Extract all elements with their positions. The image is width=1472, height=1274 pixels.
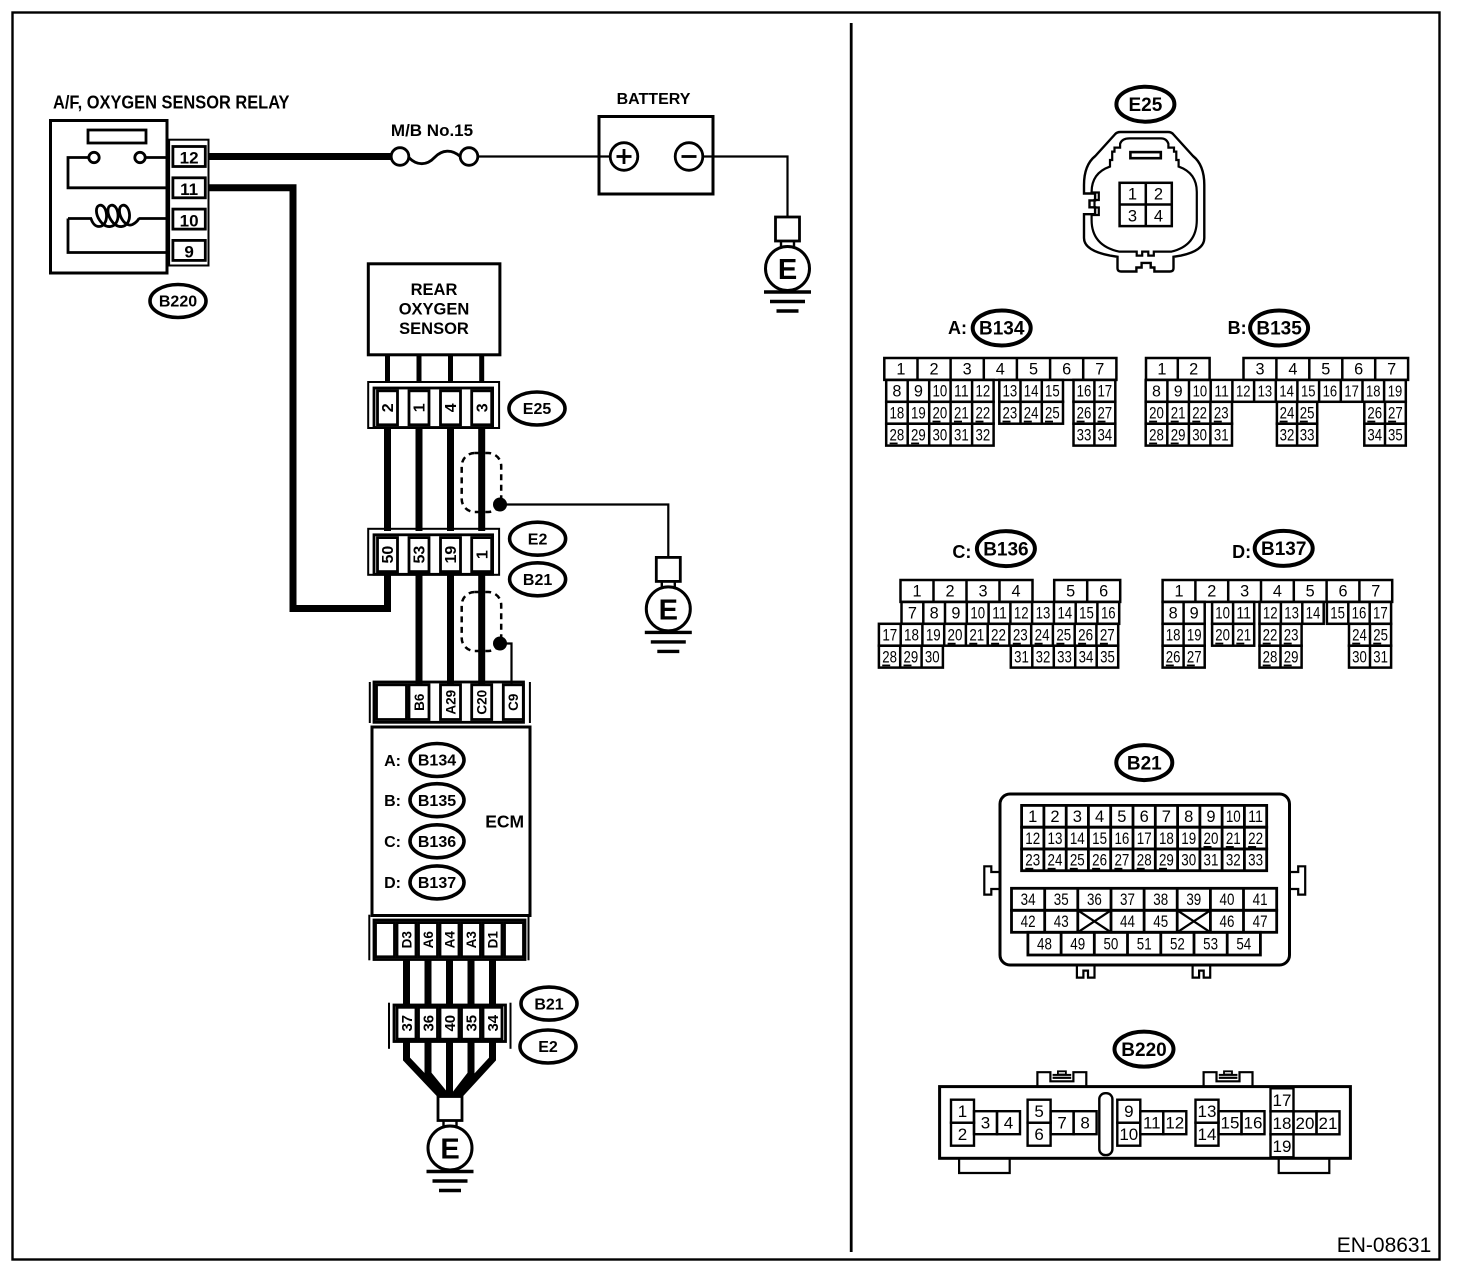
- svg-text:4: 4: [1288, 361, 1297, 379]
- svg-text:29: 29: [1159, 852, 1174, 870]
- svg-text:47: 47: [1253, 913, 1268, 931]
- svg-text:21: 21: [969, 627, 984, 645]
- svg-text:4: 4: [1004, 1114, 1013, 1133]
- svg-text:2: 2: [958, 1125, 967, 1144]
- svg-text:C9: C9: [506, 694, 521, 711]
- svg-text:20: 20: [933, 405, 948, 423]
- svg-text:10: 10: [933, 383, 948, 401]
- svg-text:6: 6: [1354, 361, 1363, 379]
- svg-text:16: 16: [1114, 830, 1129, 848]
- svg-text:1: 1: [1028, 808, 1037, 826]
- svg-text:27: 27: [1114, 852, 1129, 870]
- svg-text:27: 27: [1100, 627, 1115, 645]
- svg-text:25: 25: [1373, 627, 1388, 645]
- svg-text:37: 37: [1120, 891, 1135, 909]
- svg-text:17: 17: [882, 627, 897, 645]
- svg-text:22: 22: [1192, 405, 1207, 423]
- svg-text:19: 19: [1181, 830, 1196, 848]
- svg-text:16: 16: [1323, 384, 1338, 401]
- svg-text:26: 26: [1077, 405, 1092, 423]
- svg-text:31: 31: [1214, 426, 1229, 444]
- svg-text:23: 23: [1025, 852, 1040, 870]
- svg-text:BATTERY: BATTERY: [617, 91, 691, 108]
- svg-text:2: 2: [929, 361, 938, 379]
- svg-text:32: 32: [976, 426, 991, 444]
- svg-text:8: 8: [1184, 808, 1193, 826]
- svg-text:7: 7: [908, 605, 917, 623]
- svg-text:23: 23: [1003, 405, 1018, 423]
- svg-text:30: 30: [1181, 852, 1196, 870]
- svg-text:13: 13: [1198, 1102, 1217, 1121]
- svg-text:5: 5: [1066, 583, 1075, 601]
- svg-text:20: 20: [948, 627, 963, 645]
- svg-text:M/B No.15: M/B No.15: [391, 121, 473, 140]
- svg-text:12: 12: [1236, 384, 1251, 401]
- svg-text:13: 13: [1284, 605, 1299, 623]
- svg-text:4: 4: [443, 403, 460, 412]
- svg-text:12: 12: [976, 383, 991, 401]
- svg-text:17: 17: [1097, 383, 1112, 401]
- svg-text:19: 19: [1187, 627, 1202, 645]
- svg-text:11: 11: [1248, 808, 1263, 826]
- svg-text:18: 18: [1159, 830, 1174, 848]
- svg-text:5: 5: [1117, 808, 1126, 826]
- svg-text:15: 15: [1079, 605, 1094, 623]
- svg-text:24: 24: [1048, 852, 1063, 870]
- svg-text:12: 12: [1014, 605, 1029, 623]
- svg-text:18: 18: [1273, 1114, 1292, 1133]
- svg-text:23: 23: [1013, 627, 1028, 645]
- svg-text:6: 6: [1338, 583, 1347, 601]
- svg-text:7: 7: [1387, 361, 1396, 379]
- svg-text:10: 10: [970, 605, 985, 623]
- svg-text:23: 23: [1214, 405, 1229, 423]
- svg-text:30: 30: [925, 648, 940, 666]
- svg-text:29: 29: [1171, 426, 1186, 444]
- svg-text:24: 24: [1035, 627, 1050, 645]
- svg-text:9: 9: [1174, 384, 1183, 401]
- svg-text:19: 19: [911, 405, 926, 423]
- svg-text:53: 53: [412, 546, 429, 564]
- svg-text:B135: B135: [1256, 319, 1302, 340]
- svg-text:11: 11: [1236, 605, 1251, 623]
- svg-text:B135: B135: [418, 793, 456, 810]
- svg-text:19: 19: [926, 627, 941, 645]
- svg-text:31: 31: [1014, 648, 1029, 666]
- svg-text:8: 8: [930, 605, 939, 623]
- svg-text:16: 16: [1101, 605, 1116, 623]
- svg-text:1: 1: [474, 550, 491, 559]
- svg-text:EN-08631: EN-08631: [1337, 1234, 1432, 1257]
- svg-text:4: 4: [1095, 808, 1104, 826]
- svg-text:D:: D:: [384, 875, 401, 892]
- svg-text:17: 17: [1373, 605, 1388, 623]
- svg-text:32: 32: [1280, 426, 1295, 444]
- svg-text:D3: D3: [399, 931, 414, 949]
- svg-text:B137: B137: [1261, 539, 1306, 560]
- svg-text:5: 5: [1029, 361, 1038, 379]
- svg-text:46: 46: [1220, 913, 1235, 931]
- svg-text:B134: B134: [979, 319, 1025, 340]
- svg-text:24: 24: [1024, 405, 1039, 423]
- svg-text:B21: B21: [523, 572, 552, 589]
- svg-text:3: 3: [963, 361, 972, 379]
- svg-text:51: 51: [1137, 936, 1152, 954]
- svg-text:52: 52: [1170, 936, 1185, 954]
- svg-text:29: 29: [911, 426, 926, 444]
- svg-text:26: 26: [1092, 852, 1107, 870]
- svg-text:ECM: ECM: [485, 811, 524, 831]
- svg-text:54: 54: [1236, 936, 1251, 954]
- svg-text:7: 7: [1095, 361, 1104, 379]
- svg-text:4: 4: [1154, 207, 1163, 225]
- svg-text:B137: B137: [418, 875, 456, 892]
- svg-text:1: 1: [412, 403, 429, 412]
- svg-text:13: 13: [1003, 383, 1018, 401]
- svg-text:14: 14: [1306, 605, 1321, 623]
- svg-text:21: 21: [1171, 405, 1186, 423]
- svg-text:9: 9: [914, 383, 923, 401]
- svg-text:2: 2: [1050, 808, 1059, 826]
- svg-text:12: 12: [1025, 830, 1040, 848]
- svg-text:15: 15: [1221, 1114, 1240, 1133]
- svg-text:16: 16: [1077, 383, 1092, 401]
- svg-text:29: 29: [904, 648, 919, 666]
- svg-text:C20: C20: [475, 690, 490, 715]
- svg-text:13: 13: [1036, 605, 1051, 623]
- svg-text:E: E: [440, 1134, 459, 1166]
- svg-text:38: 38: [1153, 891, 1168, 909]
- svg-text:18: 18: [890, 405, 905, 423]
- svg-text:B220: B220: [159, 294, 197, 311]
- svg-text:23: 23: [1284, 627, 1299, 645]
- svg-text:39: 39: [1186, 891, 1201, 909]
- svg-text:26: 26: [1166, 648, 1181, 666]
- svg-text:41: 41: [1253, 891, 1268, 909]
- svg-text:B134: B134: [418, 753, 456, 770]
- svg-text:D1: D1: [485, 931, 500, 949]
- svg-text:21: 21: [1236, 627, 1251, 645]
- svg-text:A6: A6: [421, 931, 436, 949]
- svg-text:2: 2: [1207, 583, 1216, 601]
- svg-text:15: 15: [1045, 383, 1060, 401]
- svg-text:OXYGEN: OXYGEN: [399, 301, 470, 319]
- svg-text:1: 1: [1157, 361, 1166, 379]
- svg-text:15: 15: [1330, 605, 1345, 623]
- svg-text:14: 14: [1070, 830, 1085, 848]
- svg-text:48: 48: [1037, 936, 1052, 954]
- svg-text:E2: E2: [538, 1039, 558, 1056]
- svg-text:10: 10: [1215, 605, 1230, 623]
- svg-text:B:: B:: [384, 793, 401, 810]
- svg-text:24: 24: [1280, 405, 1295, 423]
- svg-text:43: 43: [1054, 913, 1069, 931]
- svg-text:27: 27: [1187, 648, 1202, 666]
- svg-text:50: 50: [1103, 936, 1118, 954]
- svg-text:31: 31: [1373, 648, 1388, 666]
- svg-text:2: 2: [1154, 186, 1163, 204]
- svg-text:3: 3: [1255, 361, 1264, 379]
- svg-text:22: 22: [991, 627, 1006, 645]
- svg-text:20: 20: [1215, 627, 1230, 645]
- svg-text:34: 34: [1079, 648, 1094, 666]
- svg-text:SENSOR: SENSOR: [399, 320, 469, 338]
- svg-text:35: 35: [1054, 891, 1069, 909]
- svg-text:3: 3: [981, 1114, 990, 1133]
- svg-text:B136: B136: [418, 834, 456, 851]
- svg-text:25: 25: [1045, 405, 1060, 423]
- svg-text:20: 20: [1296, 1114, 1315, 1133]
- svg-text:40: 40: [442, 1015, 459, 1032]
- svg-text:28: 28: [1149, 426, 1164, 444]
- svg-text:32: 32: [1036, 648, 1051, 666]
- svg-text:18: 18: [904, 627, 919, 645]
- svg-text:C:: C:: [952, 542, 971, 562]
- svg-text:19: 19: [1273, 1137, 1292, 1156]
- svg-text:27: 27: [1097, 405, 1112, 423]
- svg-text:B21: B21: [534, 996, 563, 1013]
- svg-text:19: 19: [1388, 384, 1403, 401]
- svg-text:2: 2: [380, 403, 397, 412]
- svg-text:1: 1: [912, 583, 921, 601]
- svg-text:30: 30: [1352, 648, 1367, 666]
- svg-text:9: 9: [951, 605, 960, 623]
- svg-text:9: 9: [1190, 605, 1199, 623]
- svg-text:1: 1: [896, 361, 905, 379]
- svg-text:25: 25: [1300, 405, 1315, 423]
- svg-text:32: 32: [1226, 852, 1241, 870]
- svg-text:E: E: [778, 254, 797, 286]
- svg-text:15: 15: [1092, 830, 1107, 848]
- svg-text:28: 28: [882, 648, 897, 666]
- svg-text:8: 8: [1152, 384, 1161, 401]
- svg-text:36: 36: [1087, 891, 1102, 909]
- svg-text:B21: B21: [1127, 753, 1162, 774]
- svg-text:53: 53: [1203, 936, 1218, 954]
- svg-text:50: 50: [380, 546, 397, 564]
- svg-text:7: 7: [1162, 808, 1171, 826]
- svg-text:21: 21: [954, 405, 969, 423]
- svg-text:18: 18: [1166, 627, 1181, 645]
- svg-text:28: 28: [1263, 648, 1278, 666]
- svg-text:25: 25: [1056, 627, 1071, 645]
- svg-text:15: 15: [1301, 384, 1316, 401]
- svg-text:8: 8: [1169, 605, 1178, 623]
- svg-text:11: 11: [992, 605, 1007, 623]
- svg-text:12: 12: [180, 149, 199, 168]
- svg-text:A4: A4: [442, 931, 457, 949]
- svg-text:35: 35: [1388, 426, 1403, 444]
- svg-text:B220: B220: [1121, 1040, 1166, 1061]
- svg-text:17: 17: [1137, 830, 1152, 848]
- svg-text:E: E: [659, 594, 678, 626]
- svg-text:1: 1: [958, 1102, 967, 1121]
- svg-text:B:: B:: [1228, 318, 1247, 338]
- svg-text:19: 19: [443, 546, 460, 564]
- svg-text:9: 9: [1124, 1102, 1133, 1121]
- svg-text:A29: A29: [443, 690, 458, 715]
- svg-text:17: 17: [1344, 384, 1359, 401]
- svg-text:30: 30: [1192, 426, 1207, 444]
- svg-text:33: 33: [1057, 648, 1072, 666]
- svg-text:11: 11: [1214, 384, 1229, 401]
- svg-text:4: 4: [1011, 583, 1020, 601]
- svg-text:3: 3: [978, 583, 987, 601]
- svg-text:37: 37: [399, 1015, 416, 1032]
- svg-text:E25: E25: [1128, 95, 1162, 116]
- svg-text:D:: D:: [1232, 542, 1251, 562]
- svg-text:34: 34: [485, 1014, 502, 1031]
- svg-text:2: 2: [1189, 361, 1198, 379]
- svg-text:34: 34: [1367, 426, 1382, 444]
- svg-text:33: 33: [1300, 426, 1315, 444]
- svg-text:14: 14: [1198, 1125, 1217, 1144]
- svg-text:8: 8: [1080, 1114, 1089, 1133]
- svg-text:A3: A3: [464, 931, 479, 949]
- svg-text:A:: A:: [948, 318, 967, 338]
- svg-text:30: 30: [933, 426, 948, 444]
- svg-text:1: 1: [1174, 583, 1183, 601]
- svg-text:6: 6: [1099, 583, 1108, 601]
- svg-text:12: 12: [1165, 1114, 1184, 1133]
- svg-text:REAR: REAR: [411, 281, 458, 299]
- svg-text:3: 3: [474, 403, 491, 412]
- svg-text:6: 6: [1062, 361, 1071, 379]
- svg-text:20: 20: [1204, 830, 1219, 848]
- svg-text:25: 25: [1070, 852, 1085, 870]
- svg-text:7: 7: [1057, 1114, 1066, 1133]
- svg-text:C:: C:: [384, 834, 401, 851]
- svg-text:1: 1: [1128, 186, 1137, 204]
- svg-text:44: 44: [1120, 913, 1135, 931]
- svg-text:31: 31: [1204, 852, 1219, 870]
- svg-text:E2: E2: [528, 531, 548, 548]
- svg-text:11: 11: [1143, 1114, 1161, 1133]
- svg-text:26: 26: [1367, 405, 1382, 423]
- svg-text:13: 13: [1258, 384, 1273, 401]
- svg-text:4: 4: [996, 361, 1005, 379]
- svg-text:6: 6: [1034, 1125, 1043, 1144]
- svg-text:14: 14: [1279, 384, 1294, 401]
- svg-text:17: 17: [1273, 1091, 1292, 1110]
- svg-text:8: 8: [892, 383, 901, 401]
- svg-text:11: 11: [954, 383, 969, 401]
- svg-text:B6: B6: [412, 693, 427, 711]
- svg-text:E25: E25: [523, 401, 552, 418]
- svg-text:A/F, OXYGEN SENSOR RELAY: A/F, OXYGEN SENSOR RELAY: [53, 93, 290, 113]
- svg-text:14: 14: [1057, 605, 1072, 623]
- svg-text:3: 3: [1128, 207, 1137, 225]
- svg-text:22: 22: [1263, 627, 1278, 645]
- svg-text:16: 16: [1244, 1114, 1263, 1133]
- svg-text:45: 45: [1153, 913, 1168, 931]
- svg-text:35: 35: [463, 1015, 480, 1032]
- svg-text:20: 20: [1149, 405, 1164, 423]
- svg-text:34: 34: [1021, 891, 1036, 909]
- svg-text:34: 34: [1097, 426, 1112, 444]
- svg-text:11: 11: [180, 180, 198, 199]
- svg-text:18: 18: [1366, 384, 1381, 401]
- svg-text:31: 31: [954, 426, 969, 444]
- svg-text:28: 28: [890, 426, 905, 444]
- svg-text:35: 35: [1100, 648, 1115, 666]
- svg-text:10: 10: [1193, 384, 1208, 401]
- svg-text:9: 9: [184, 243, 193, 262]
- svg-text:3: 3: [1073, 808, 1082, 826]
- svg-text:16: 16: [1352, 605, 1367, 623]
- svg-text:36: 36: [420, 1015, 437, 1032]
- svg-text:4: 4: [1273, 583, 1282, 601]
- svg-text:7: 7: [1371, 583, 1380, 601]
- svg-text:21: 21: [1319, 1114, 1338, 1133]
- svg-text:10: 10: [180, 211, 199, 230]
- svg-text:14: 14: [1024, 383, 1039, 401]
- svg-text:2: 2: [945, 583, 954, 601]
- svg-text:29: 29: [1284, 648, 1299, 666]
- svg-text:21: 21: [1226, 830, 1241, 848]
- svg-text:13: 13: [1048, 830, 1063, 848]
- svg-text:42: 42: [1021, 913, 1036, 931]
- svg-text:B136: B136: [983, 539, 1028, 560]
- svg-text:49: 49: [1070, 936, 1085, 954]
- svg-text:28: 28: [1137, 852, 1152, 870]
- svg-text:5: 5: [1034, 1102, 1043, 1121]
- svg-text:9: 9: [1206, 808, 1215, 826]
- svg-text:A:: A:: [384, 753, 401, 770]
- svg-text:26: 26: [1078, 627, 1093, 645]
- svg-text:5: 5: [1306, 583, 1315, 601]
- svg-text:6: 6: [1140, 808, 1149, 826]
- svg-text:40: 40: [1220, 891, 1235, 909]
- svg-text:5: 5: [1321, 361, 1330, 379]
- svg-text:22: 22: [1248, 830, 1263, 848]
- svg-text:10: 10: [1119, 1125, 1138, 1144]
- svg-text:33: 33: [1248, 852, 1263, 870]
- svg-text:10: 10: [1226, 808, 1241, 826]
- svg-text:24: 24: [1352, 627, 1367, 645]
- svg-text:27: 27: [1388, 405, 1403, 423]
- svg-text:12: 12: [1263, 605, 1278, 623]
- svg-text:3: 3: [1240, 583, 1249, 601]
- svg-text:22: 22: [976, 405, 991, 423]
- svg-text:33: 33: [1077, 426, 1092, 444]
